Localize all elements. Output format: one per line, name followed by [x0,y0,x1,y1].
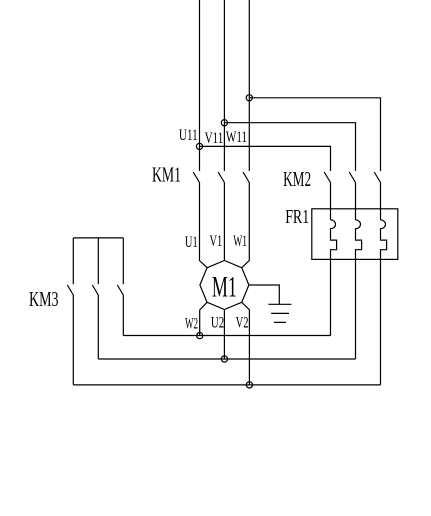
svg-text:M1: M1 [212,272,237,304]
node U11 tap [196,143,202,149]
svg-text:U11: U11 [179,127,198,144]
FR1 heater element 1 [331,220,337,336]
wire KM3 col1 lower [72,295,74,385]
svg-text:V1: V1 [210,233,223,250]
thermal relay FR1 box [312,209,398,260]
wire KM2 pole1 to FR1 [330,183,332,220]
contactor KM2 pole 1 [324,172,330,183]
contactor KM1 pole 2 [218,172,224,183]
wire KM1 pole2 to motor V1 [223,183,225,261]
contactor KM1 pole 1 [193,172,199,183]
wire KM2 pole3 to FR1 [380,183,382,220]
wire bus V2 (y=384.9) [73,384,380,386]
contactor KM3 pole 2 [92,285,98,295]
svg-text:W11: W11 [226,129,247,146]
FR1 heater element 3 [381,220,387,385]
wire KM3 col3 lower [122,295,124,336]
node W2 [197,333,203,339]
contactor KM3 pole 3 [117,285,123,295]
wire supply line V11 upper [223,0,225,171]
contactor KM2 pole 2 [349,172,355,183]
svg-text:W2: W2 [185,315,198,332]
wire KM3 col1 upper [72,238,74,284]
wire motor W2 lead down [200,302,207,335]
wire KM3 col2 upper [97,238,99,284]
wire KM1 pole1 to motor U1 [200,183,208,268]
node V2 [246,382,252,388]
svg-text:U1: U1 [185,234,198,251]
node W11 tap [246,95,252,101]
wire motor U2 lead down [223,310,225,360]
wire motor V2 lead down [242,302,250,385]
svg-text:KM1: KM1 [152,163,181,187]
wire supply line W11 upper [248,0,250,171]
motor M1 octagon [200,261,249,310]
svg-text:KM3: KM3 [29,287,59,311]
node U2 [221,356,227,362]
contactor KM2 pole 3 [374,172,380,183]
svg-text:V11: V11 [205,130,224,147]
node V11 tap [221,120,227,126]
wire KM1 pole3 to motor W1 [242,183,250,268]
svg-text:W1: W1 [233,233,247,250]
wire KM3 col2 lower [97,295,99,359]
svg-text:FR1: FR1 [285,207,309,228]
wire U11 tap to KM2 [200,146,331,171]
wire motor to ground [249,285,279,304]
svg-text:V2: V2 [236,315,249,332]
wire W11 tap to KM2 [249,98,380,171]
wire KM3 col3 upper [122,238,124,284]
wire supply line U11 upper [199,0,201,171]
wire V11 tap to KM2 [224,123,355,171]
svg-text:U2: U2 [211,315,224,332]
wire bus W2 (y=335.6) [123,335,330,337]
contactor KM1 pole 3 [243,172,249,183]
contactor KM3 pole 1 [67,285,73,295]
svg-text:KM2: KM2 [283,167,311,191]
FR1 heater element 2 [356,220,362,359]
wire KM2 pole2 to FR1 [355,183,357,220]
wire bus U2 (y=359) [98,358,355,360]
ground [268,304,291,322]
contactor KM3 star bar [73,237,123,239]
